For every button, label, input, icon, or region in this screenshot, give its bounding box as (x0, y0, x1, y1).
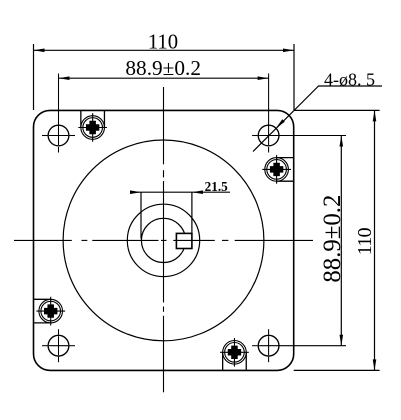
svg-text:110: 110 (354, 227, 376, 255)
svg-text:88.9±0.2: 88.9±0.2 (319, 195, 346, 283)
svg-text:88.9±0.2: 88.9±0.2 (125, 56, 201, 80)
svg-text:21.5: 21.5 (205, 179, 228, 194)
svg-text:110: 110 (148, 32, 178, 54)
svg-text:4-ø8. 5: 4-ø8. 5 (324, 70, 375, 90)
